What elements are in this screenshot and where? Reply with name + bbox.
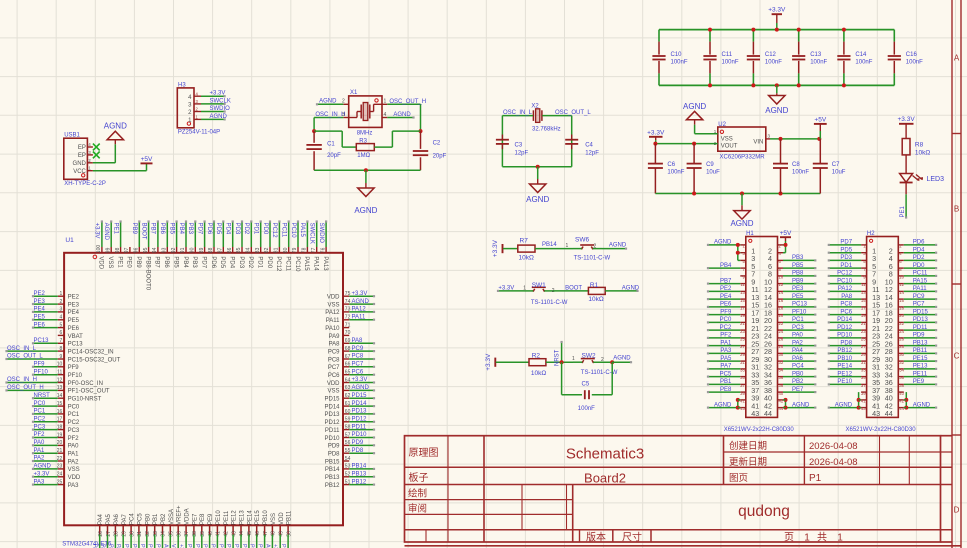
svg-text:PD14: PD14 [837, 317, 853, 323]
svg-text:39: 39 [740, 391, 745, 396]
svg-text:PD5: PD5 [840, 247, 852, 253]
svg-text:35: 35 [861, 375, 866, 380]
svg-text:PC12: PC12 [271, 223, 277, 239]
svg-text:PC5: PC5 [131, 544, 137, 548]
svg-text:PB14: PB14 [325, 467, 340, 473]
svg-text:90: 90 [190, 247, 196, 253]
svg-text:43: 43 [861, 406, 866, 411]
svg-text:83: 83 [255, 247, 261, 253]
svg-text:PB5: PB5 [792, 263, 804, 269]
svg-text:C11: C11 [722, 52, 733, 58]
svg-text:PC4: PC4 [130, 513, 136, 525]
svg-text:PA5: PA5 [100, 544, 106, 548]
svg-text:80: 80 [283, 247, 289, 253]
svg-text:PD10: PD10 [837, 333, 853, 339]
svg-text:100nF: 100nF [578, 406, 595, 412]
svg-text:54: 54 [345, 456, 351, 462]
svg-text:PB11: PB11 [280, 544, 286, 548]
svg-text:PD2: PD2 [247, 256, 253, 268]
svg-text:VSS: VSS [327, 389, 339, 395]
svg-text:25: 25 [861, 337, 866, 342]
svg-text:PD0: PD0 [262, 223, 268, 235]
svg-text:92: 92 [171, 247, 177, 253]
svg-text:PD11: PD11 [325, 428, 340, 434]
svg-text:R1: R1 [590, 282, 599, 289]
svg-text:OSC_OUT_L: OSC_OUT_L [555, 110, 591, 116]
svg-text:PD3: PD3 [234, 223, 240, 235]
svg-text:PC7: PC7 [328, 365, 340, 371]
svg-text:PE5: PE5 [792, 294, 804, 300]
svg-text:13: 13 [861, 290, 866, 295]
svg-text:+5V: +5V [814, 116, 826, 123]
svg-text:页: 页 [784, 532, 794, 544]
svg-text:PE6: PE6 [68, 326, 80, 332]
svg-text:PB4: PB4 [182, 256, 188, 268]
svg-text:PE1: PE1 [116, 256, 122, 268]
svg-text:PA2: PA2 [68, 459, 80, 465]
svg-text:12pF: 12pF [515, 150, 529, 156]
svg-text:PE6: PE6 [34, 322, 46, 328]
svg-text:PF9: PF9 [34, 362, 46, 368]
svg-text:LED3: LED3 [927, 176, 945, 183]
svg-text:绘制: 绘制 [408, 487, 427, 499]
svg-text:PE14: PE14 [241, 544, 247, 548]
svg-text:11: 11 [57, 370, 62, 376]
svg-text:8: 8 [60, 346, 63, 352]
svg-text:PA13: PA13 [322, 256, 328, 271]
svg-text:OSC_IN_L: OSC_IN_L [7, 346, 37, 352]
svg-text:PE5: PE5 [68, 318, 80, 324]
svg-text:PB13: PB13 [913, 340, 928, 346]
svg-text:PC9: PC9 [913, 294, 925, 300]
svg-text:84: 84 [246, 247, 252, 253]
svg-text:SWDIO: SWDIO [318, 223, 324, 244]
svg-text:PE4: PE4 [68, 310, 80, 316]
svg-text:PA7: PA7 [122, 513, 128, 525]
svg-text:8MHz: 8MHz [357, 130, 373, 136]
svg-text:PC13: PC13 [68, 342, 84, 348]
svg-text:VSS: VSS [271, 513, 277, 525]
svg-text:AGND: AGND [319, 98, 337, 104]
svg-text:U1: U1 [65, 237, 74, 244]
svg-text:PA0: PA0 [792, 333, 804, 339]
svg-text:PA4: PA4 [98, 513, 104, 525]
svg-text:PF9: PF9 [720, 309, 732, 315]
svg-text:PB5: PB5 [168, 223, 174, 235]
svg-text:PB10: PB10 [837, 356, 852, 362]
svg-text:PD3: PD3 [238, 256, 244, 268]
svg-text:OSC_IN_H: OSC_IN_H [315, 112, 345, 118]
svg-text:+3.3V: +3.3V [352, 291, 368, 297]
svg-text:PE2: PE2 [68, 295, 80, 301]
svg-text:49: 49 [278, 531, 284, 537]
svg-text:PD12: PD12 [352, 417, 368, 423]
svg-text:C9: C9 [706, 162, 714, 168]
svg-text:PC0: PC0 [720, 317, 732, 323]
svg-text:42: 42 [224, 531, 230, 537]
svg-text:2: 2 [601, 357, 604, 363]
svg-text:4: 4 [384, 112, 387, 118]
svg-text:PA1: PA1 [720, 340, 732, 346]
svg-text:+3.3V: +3.3V [898, 116, 916, 123]
svg-text:PE15: PE15 [255, 510, 261, 525]
svg-text:PB5: PB5 [172, 256, 178, 268]
svg-text:41: 41 [861, 399, 866, 404]
svg-text:AGND: AGND [103, 223, 109, 241]
svg-text:94: 94 [152, 247, 158, 253]
svg-text:XC6206P332MR: XC6206P332MR [720, 154, 766, 160]
svg-text:PD12: PD12 [837, 325, 853, 331]
svg-text:PA2: PA2 [34, 456, 46, 462]
svg-text:PE15: PE15 [249, 544, 255, 548]
svg-text:SWDIO: SWDIO [210, 106, 231, 112]
svg-text:VDD: VDD [327, 295, 340, 301]
svg-text:PA0: PA0 [34, 440, 46, 446]
svg-text:32.768kHz: 32.768kHz [532, 126, 561, 132]
svg-text:尺寸: 尺寸 [622, 531, 642, 544]
svg-text:PD15: PD15 [913, 309, 929, 315]
svg-text:AGND: AGND [162, 544, 168, 548]
svg-text:PD8: PD8 [328, 452, 340, 458]
svg-text:PA3: PA3 [720, 348, 732, 354]
svg-text:PB1: PB1 [720, 379, 732, 385]
svg-text:76: 76 [320, 247, 326, 253]
svg-text:1: 1 [837, 533, 843, 544]
svg-text:AGND: AGND [730, 219, 753, 228]
svg-text:OSC_OUT_L: OSC_OUT_L [7, 354, 43, 360]
svg-text:PG10-NRST: PG10-NRST [68, 397, 102, 403]
svg-text:PF2: PF2 [720, 333, 732, 339]
svg-text:C3: C3 [515, 142, 523, 148]
svg-text:PE11: PE11 [224, 510, 230, 525]
svg-text:PE13: PE13 [233, 544, 239, 548]
svg-text:EP: EP [78, 153, 86, 159]
svg-text:PB3: PB3 [187, 223, 193, 235]
svg-text:PB9: PB9 [792, 278, 804, 284]
svg-text:70: 70 [345, 330, 351, 336]
svg-text:VREF: VREF [170, 544, 176, 548]
svg-text:93: 93 [162, 247, 168, 253]
svg-text:共: 共 [817, 532, 827, 544]
svg-text:VDD: VDD [98, 256, 104, 269]
svg-text:AGND: AGND [264, 544, 270, 548]
svg-text:PA3: PA3 [34, 479, 46, 485]
svg-text:2026-04-08: 2026-04-08 [809, 457, 858, 468]
svg-text:PA8: PA8 [841, 294, 853, 300]
svg-text:PD0: PD0 [266, 256, 272, 268]
svg-text:PB4: PB4 [720, 263, 732, 269]
svg-text:A: A [954, 54, 960, 63]
svg-text:PB4: PB4 [178, 223, 184, 235]
svg-text:PE12: PE12 [225, 544, 231, 548]
svg-text:X6521WV-2x22H-C80D30: X6521WV-2x22H-C80D30 [724, 427, 795, 433]
svg-text:23: 23 [740, 329, 745, 334]
svg-text:PC10: PC10 [294, 256, 300, 272]
svg-text:PC5: PC5 [137, 513, 143, 525]
svg-text:PC0: PC0 [68, 404, 80, 410]
svg-text:PD1: PD1 [840, 263, 852, 269]
svg-text:46: 46 [255, 531, 261, 537]
svg-text:PA0: PA0 [68, 444, 80, 450]
svg-text:10kΩ: 10kΩ [588, 296, 603, 303]
svg-text:PE8: PE8 [200, 513, 206, 525]
svg-text:+3.3V: +3.3V [768, 7, 786, 14]
svg-text:PB14: PB14 [542, 242, 557, 248]
svg-text:PA11: PA11 [913, 286, 927, 292]
svg-text:100nF: 100nF [722, 60, 739, 66]
svg-text:15: 15 [740, 298, 745, 303]
svg-text:PC12: PC12 [275, 256, 281, 272]
svg-text:PC8: PC8 [328, 357, 340, 363]
svg-text:TS-1101-C-W: TS-1101-C-W [574, 256, 611, 262]
svg-text:PA11: PA11 [352, 314, 366, 320]
svg-text:AGND: AGND [34, 464, 52, 470]
svg-text:40: 40 [899, 391, 904, 396]
svg-text:R8: R8 [915, 141, 924, 148]
svg-text:PD2: PD2 [913, 255, 925, 261]
svg-text:31: 31 [137, 531, 143, 537]
svg-text:H3: H3 [178, 82, 186, 88]
svg-text:PA5: PA5 [720, 356, 732, 362]
svg-text:PB12: PB12 [352, 479, 367, 485]
svg-text:R7: R7 [520, 238, 529, 245]
svg-text:PD5: PD5 [215, 223, 221, 235]
svg-text:17: 17 [861, 306, 866, 311]
svg-text:VDD: VDD [68, 475, 81, 481]
svg-text:PD4: PD4 [225, 223, 231, 235]
svg-text:81: 81 [274, 247, 280, 253]
svg-text:+3.3V: +3.3V [352, 377, 368, 383]
svg-text:37: 37 [184, 531, 190, 537]
svg-text:PB1: PB1 [147, 544, 153, 548]
svg-text:PC9: PC9 [352, 346, 364, 352]
svg-text:PA5: PA5 [106, 513, 112, 525]
svg-text:C13: C13 [810, 52, 822, 58]
svg-text:PD7: PD7 [840, 240, 852, 246]
svg-text:+5V: +5V [141, 156, 153, 163]
svg-text:PA12: PA12 [352, 307, 367, 313]
svg-text:86: 86 [227, 247, 233, 253]
svg-text:PB14: PB14 [352, 464, 367, 470]
svg-text:41: 41 [740, 399, 745, 404]
svg-text:PF10: PF10 [34, 369, 49, 375]
svg-text:PE9: PE9 [913, 379, 925, 385]
svg-text:19: 19 [740, 313, 745, 318]
svg-text:PA11: PA11 [326, 318, 340, 324]
svg-text:PE5: PE5 [34, 314, 46, 320]
svg-text:+3.3V: +3.3V [94, 223, 100, 239]
svg-text:PC12: PC12 [837, 271, 853, 277]
svg-text:PD13: PD13 [352, 409, 368, 415]
svg-text:PA9: PA9 [329, 334, 341, 340]
svg-text:PC10: PC10 [290, 223, 296, 239]
svg-text:44: 44 [764, 409, 772, 418]
svg-text:PC13: PC13 [792, 302, 808, 308]
svg-text:PB8: PB8 [792, 271, 804, 277]
svg-text:PB10: PB10 [257, 544, 263, 548]
svg-text:PB0: PB0 [139, 544, 145, 548]
svg-text:C7: C7 [832, 162, 840, 168]
svg-text:2: 2 [342, 99, 345, 105]
svg-text:PB3: PB3 [191, 256, 197, 268]
svg-text:PD6: PD6 [206, 223, 212, 235]
svg-text:PE0: PE0 [126, 256, 132, 268]
svg-text:PB11: PB11 [287, 510, 293, 525]
svg-text:PA15: PA15 [303, 256, 309, 271]
svg-text:PC11: PC11 [913, 271, 928, 277]
svg-text:OSC_OUT_H: OSC_OUT_H [389, 99, 426, 105]
svg-text:PD10: PD10 [324, 436, 340, 442]
svg-text:PE10: PE10 [216, 510, 222, 525]
svg-text:+3.3V: +3.3V [492, 239, 499, 257]
svg-text:X1: X1 [350, 90, 358, 96]
svg-text:AGND: AGND [714, 240, 732, 246]
svg-text:PB12: PB12 [325, 483, 340, 489]
svg-text:PC6: PC6 [840, 309, 852, 315]
svg-text:NRST: NRST [554, 349, 560, 366]
svg-text:PA6: PA6 [792, 356, 804, 362]
svg-text:PE14: PE14 [247, 510, 253, 525]
svg-text:SW6: SW6 [575, 237, 589, 244]
svg-text:AGND: AGND [352, 299, 370, 305]
svg-text:39: 39 [200, 531, 206, 537]
svg-text:99: 99 [105, 247, 111, 253]
svg-text:20pF: 20pF [327, 153, 341, 159]
svg-text:10uF: 10uF [706, 170, 720, 176]
svg-text:VREF+: VREF+ [177, 505, 183, 525]
svg-text:EP: EP [78, 145, 86, 151]
svg-text:85: 85 [236, 247, 242, 253]
svg-text:3: 3 [60, 307, 63, 313]
svg-text:PB12: PB12 [837, 348, 852, 354]
svg-text:AGND: AGND [393, 112, 411, 118]
svg-text:PF9: PF9 [68, 365, 80, 371]
svg-text:PA4: PA4 [92, 544, 98, 548]
svg-text:100nF: 100nF [906, 60, 923, 66]
svg-text:PE3: PE3 [68, 302, 80, 308]
svg-text:PC15-OSC32_OUT: PC15-OSC32_OUT [68, 357, 121, 363]
svg-text:PA10: PA10 [325, 326, 340, 332]
svg-text:X6521WV-2x22H-C80D30: X6521WV-2x22H-C80D30 [846, 427, 917, 433]
svg-text:PE10: PE10 [837, 379, 852, 385]
svg-text:23: 23 [861, 329, 866, 334]
svg-text:1: 1 [60, 291, 63, 297]
svg-text:VSS: VSS [721, 136, 733, 142]
svg-text:VSS: VSS [327, 302, 339, 308]
svg-text:PE15: PE15 [913, 356, 928, 362]
svg-text:45: 45 [247, 531, 253, 537]
svg-text:3: 3 [342, 112, 345, 118]
svg-text:PF1-OSC_OUT: PF1-OSC_OUT [68, 389, 110, 395]
svg-text:26: 26 [98, 531, 104, 537]
svg-text:SW1: SW1 [532, 282, 546, 289]
svg-text:15: 15 [861, 298, 866, 303]
svg-text:100nF: 100nF [855, 60, 872, 66]
svg-text:PD9: PD9 [328, 444, 340, 450]
svg-text:PE8: PE8 [720, 387, 732, 393]
svg-text:VDD: VDD [279, 512, 285, 525]
svg-text:PD7: PD7 [200, 256, 206, 268]
svg-text:PC3: PC3 [34, 424, 46, 430]
svg-text:VDD: VDD [327, 381, 340, 387]
svg-text:77: 77 [311, 247, 317, 253]
svg-text:PE9: PE9 [208, 513, 214, 525]
svg-text:40: 40 [208, 531, 214, 537]
svg-text:PD13: PD13 [913, 317, 929, 323]
svg-text:VSS: VSS [107, 256, 113, 268]
svg-text:SWCLK: SWCLK [309, 223, 315, 244]
svg-text:89: 89 [199, 247, 205, 253]
svg-text:38: 38 [192, 531, 198, 537]
svg-text:PA6: PA6 [114, 513, 120, 525]
svg-text:PA4: PA4 [792, 348, 804, 354]
svg-text:87: 87 [218, 247, 224, 253]
svg-text:PC0: PC0 [34, 401, 46, 407]
svg-text:PD11: PD11 [352, 424, 367, 430]
svg-text:PC6: PC6 [352, 369, 364, 375]
svg-text:88: 88 [208, 247, 214, 253]
svg-text:+3.3V: +3.3V [210, 91, 226, 97]
svg-text:2: 2 [594, 244, 597, 250]
svg-text:PB13: PB13 [325, 475, 340, 481]
svg-text:VOUT: VOUT [721, 143, 738, 149]
svg-text:PB8-BOOT0: PB8-BOOT0 [144, 256, 150, 290]
svg-text:PE1: PE1 [112, 223, 118, 235]
svg-text:11: 11 [861, 282, 866, 287]
svg-text:PA7: PA7 [115, 544, 121, 548]
svg-text:PC2: PC2 [34, 417, 46, 423]
svg-text:PB7: PB7 [154, 256, 160, 268]
svg-text:+3.3V: +3.3V [485, 353, 492, 371]
svg-text:32: 32 [145, 531, 151, 537]
svg-text:71: 71 [345, 322, 351, 328]
svg-text:PD15: PD15 [324, 397, 340, 403]
svg-text:PB6: PB6 [163, 256, 169, 268]
svg-text:PC1: PC1 [792, 317, 804, 323]
svg-text:+3.3V: +3.3V [34, 471, 50, 477]
svg-text:PD4: PD4 [913, 247, 925, 253]
svg-text:PA8: PA8 [329, 342, 341, 348]
svg-text:+3.3V: +3.3V [178, 544, 184, 548]
svg-text:PF10: PF10 [792, 309, 807, 315]
svg-text:PD5: PD5 [219, 256, 225, 268]
svg-text:VSSA: VSSA [169, 509, 175, 525]
svg-text:19: 19 [861, 313, 866, 318]
svg-text:33: 33 [861, 368, 866, 373]
svg-text:R2: R2 [532, 352, 541, 359]
svg-text:1: 1 [572, 356, 575, 362]
svg-text:PE10: PE10 [209, 544, 215, 548]
svg-text:AGND: AGND [765, 106, 788, 115]
svg-text:10uF: 10uF [832, 170, 846, 176]
svg-text:USB1: USB1 [64, 133, 80, 139]
svg-text:AGND: AGND [352, 385, 370, 391]
svg-text:+5V: +5V [780, 230, 792, 237]
svg-text:100nF: 100nF [810, 60, 827, 66]
svg-text:PD13: PD13 [324, 412, 340, 418]
svg-text:PD8: PD8 [352, 448, 364, 454]
svg-text:AGND: AGND [613, 356, 631, 362]
svg-text:9: 9 [60, 354, 63, 360]
svg-text:PC3: PC3 [68, 428, 80, 434]
svg-text:PB6: PB6 [159, 223, 165, 235]
svg-text:34: 34 [161, 531, 167, 537]
svg-text:29: 29 [740, 352, 745, 357]
svg-text:37: 37 [740, 383, 745, 388]
svg-text:PA6: PA6 [107, 544, 113, 548]
svg-text:29: 29 [122, 531, 128, 537]
svg-text:图页: 图页 [729, 473, 748, 484]
